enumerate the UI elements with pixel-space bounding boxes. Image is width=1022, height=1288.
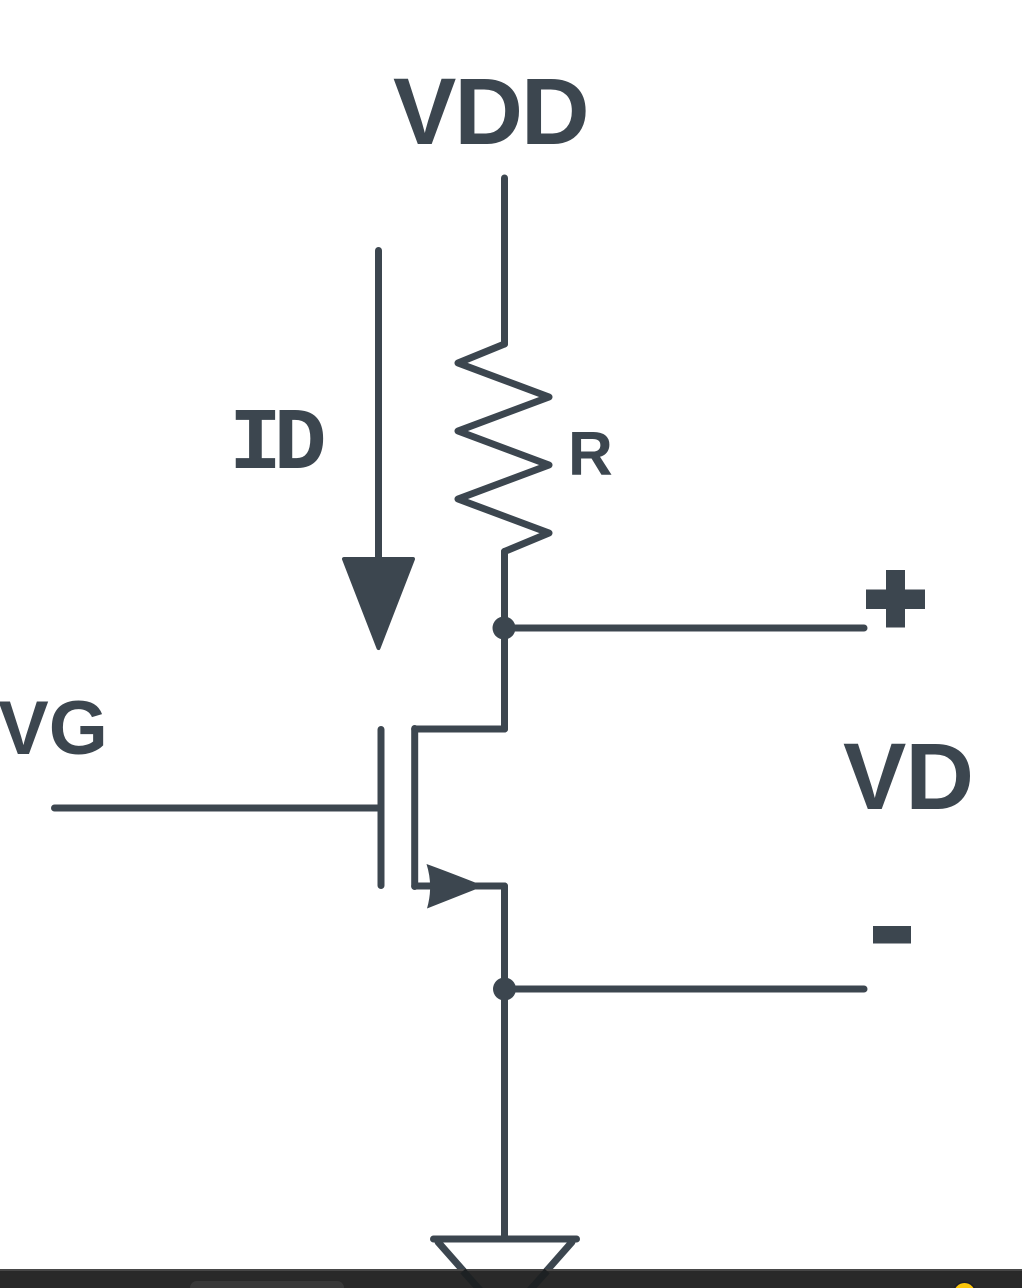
svg-text:ID: ID xyxy=(229,396,324,495)
transistor M1 channel bar xyxy=(411,729,418,887)
node A junction dot xyxy=(493,617,516,640)
plus terminal sign xyxy=(866,570,925,628)
player bar xyxy=(0,1269,1022,1288)
transistor M1 source lead xyxy=(415,883,505,890)
ID arrowhead xyxy=(344,559,413,648)
svg-text:VDD: VDD xyxy=(393,59,588,165)
ground triangle right side xyxy=(505,1242,572,1288)
wire node B to minus terminal xyxy=(505,986,865,993)
wire node A to plus terminal xyxy=(505,625,865,632)
transistor M1 source arrow xyxy=(427,864,485,909)
transistor M1 gate wire xyxy=(55,805,379,812)
player yellow dot xyxy=(954,1283,975,1288)
node B junction dot xyxy=(493,978,516,1001)
ground triangle left side under bar xyxy=(463,1271,505,1288)
ID current arrow line xyxy=(375,251,382,561)
svg-text:VG: VG xyxy=(0,686,108,771)
svg-text:VD: VD xyxy=(843,724,973,830)
wire resistor to drain xyxy=(501,552,508,730)
resistor R xyxy=(458,344,549,552)
player pill xyxy=(190,1281,344,1288)
transistor M1 drain lead xyxy=(415,726,505,733)
transistor M1 gate bar xyxy=(378,730,385,886)
ground bar xyxy=(434,1236,577,1243)
wire VDD to resistor xyxy=(501,178,508,344)
wire source to ground xyxy=(501,886,508,1239)
ground triangle right side under bar xyxy=(505,1271,547,1288)
ground triangle left side xyxy=(438,1242,505,1288)
minus terminal sign xyxy=(873,926,911,944)
svg-text:R: R xyxy=(568,420,613,489)
